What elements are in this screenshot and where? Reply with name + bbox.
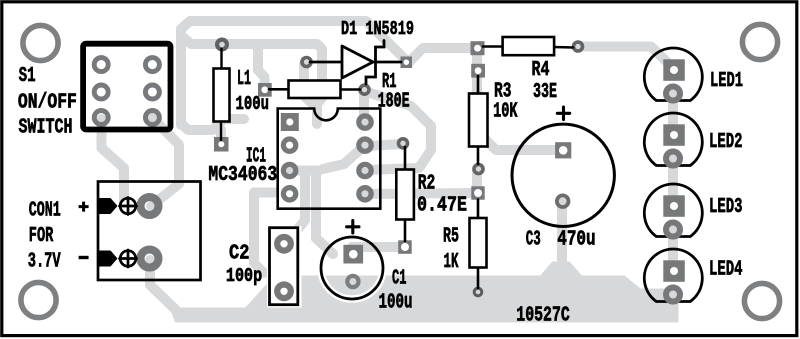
CON1 outline [98, 182, 201, 281]
D1 cathode square pad [401, 57, 413, 69]
wire CON1 + pad to switch right-bottom pad [151, 118, 179, 206]
mounting hole bottom-left [21, 282, 56, 317]
C1 clearance ring [321, 237, 383, 299]
wire IC leg to C1 plus pad (over clearance) [316, 230, 333, 254]
R3 top square pad [471, 64, 485, 78]
svg-text:470u: 470u [557, 229, 596, 252]
wire IC inner leg to C2 top pad [298, 172, 305, 229]
R5 top square pad [471, 186, 484, 199]
svg-text:33E: 33E [533, 81, 557, 104]
LED3 outline [644, 184, 702, 236]
svg-text:C2: C2 [229, 243, 250, 266]
C1 outline [321, 237, 383, 299]
svg-text:LED2: LED2 [709, 131, 743, 154]
D1 anode pad [302, 58, 311, 67]
svg-text:S1: S1 [19, 65, 36, 88]
wire LED2 to LED3 [668, 159, 678, 207]
R2 bottom square pad [398, 240, 412, 254]
wire L1 bottom pad branch [216, 130, 226, 139]
R1 body [269, 88, 289, 91]
IC1 pin1 square pad [281, 113, 299, 131]
R3 body [477, 76, 480, 96]
svg-text:100u: 100u [236, 93, 270, 115]
svg-text:LED4: LED4 [709, 259, 743, 282]
switch S1 pads [94, 58, 159, 125]
svg-text:D1 1N5819: D1 1N5819 [341, 18, 414, 40]
R2 top pad [399, 139, 408, 148]
svg-text:100u: 100u [379, 292, 413, 315]
CON1 + pin screw symbol [120, 198, 136, 214]
R4 left square pad [471, 41, 485, 55]
wire C1 plus pad to R2 bottom pad (over clearance) [360, 242, 400, 252]
LED2 pads [663, 124, 685, 146]
L1 top pad [217, 40, 227, 50]
R4 right pad [574, 42, 583, 51]
wire IC pin7 diagonal [323, 145, 365, 169]
wire IC pin4 to ground pour [254, 193, 274, 274]
C3 round pad [557, 195, 569, 207]
mounting hole bottom-right [744, 283, 779, 318]
C3 square pad [555, 142, 571, 158]
R1 left square pad [258, 83, 272, 97]
R4 body [483, 45, 503, 48]
wire LED1 to LED2 [668, 93, 678, 136]
R1 right pad [360, 85, 369, 94]
wire CON1 + to switch left-bottom pad [102, 119, 125, 205]
svg-text:10K: 10K [493, 101, 518, 124]
label CON1 minus [79, 256, 89, 259]
R3 bottom pad [474, 165, 483, 174]
svg-text:R5: R5 [443, 226, 459, 249]
switch S1 outline [83, 44, 170, 130]
ground pour polygon [172, 263, 677, 321]
wire stub from switch net over L1 pad [181, 119, 244, 130]
LED pads (drawn over outlines) [663, 59, 685, 301]
wire C3 - pad down to pour [557, 202, 567, 262]
D1 diode symbol [310, 61, 342, 64]
svg-text:MC34063: MC34063 [208, 164, 277, 187]
R5 bottom pad [474, 288, 482, 296]
wire IC pin5 to R5 top pad [366, 193, 472, 194]
wire C1 plus pad to R2 bottom pad [352, 242, 400, 252]
wire branch down to R1 left pad [258, 45, 265, 85]
wire R4 right pad to LED1 square pad [578, 47, 671, 67]
svg-text:R2: R2 [418, 173, 436, 196]
C2 pads [277, 237, 291, 251]
wire IC inner leg to C1 plus pad [316, 171, 333, 254]
svg-text:10527C: 10527C [516, 305, 570, 328]
wire R3 top pad down to C3 + pad [477, 69, 562, 150]
wire D1 anode pad down to IC notch [304, 64, 314, 105]
svg-text:C3: C3 [526, 229, 541, 252]
LED1 pads [663, 59, 685, 81]
LED4 pads [663, 260, 685, 282]
C3 + mark [557, 107, 569, 119]
wire IC inner bar to pin3 [291, 166, 319, 176]
IC1 outline with notch [278, 109, 381, 209]
wire LED4 round pad to pour [650, 291, 673, 301]
svg-text:R4: R4 [532, 59, 550, 82]
svg-text:L1: L1 [237, 68, 251, 91]
CON1 pads [141, 197, 159, 215]
CON1 - pin wedge [97, 251, 118, 267]
LED4 outline [644, 249, 702, 301]
L1 body [220, 49, 222, 68]
traces layer [102, 21, 674, 310]
C1 square pad [343, 245, 363, 264]
label CON1 plus [79, 202, 89, 212]
svg-text:LED1: LED1 [710, 70, 743, 93]
svg-text:180E: 180E [378, 91, 410, 114]
C1 + mark [347, 221, 359, 233]
mounting hole top-left [23, 25, 58, 60]
wire bundle to R1 left pad and ground vertical [184, 38, 322, 124]
wire R4 left pad to R3 top pad [472, 48, 482, 69]
svg-text:100p: 100p [226, 265, 262, 287]
pour flare under C3 [541, 263, 581, 277]
LED1 outline [644, 48, 702, 100]
wire R3 bottom pad to R5 top pad [472, 170, 482, 193]
svg-text:CON1: CON1 [29, 200, 61, 223]
wire R2 top pad to IC pin7 [366, 144, 402, 146]
svg-text:0.47E: 0.47E [417, 195, 467, 218]
svg-text:LED3: LED3 [709, 196, 743, 219]
wire D1 cathode pad to R4 left pad [409, 48, 477, 62]
R2 body [404, 147, 407, 170]
mounting hole top-right [742, 24, 777, 59]
CON1 - pin screw symbol [120, 251, 136, 267]
wire R1 right pad loop to IC pin6 [364, 91, 431, 170]
LED2 outline [644, 113, 702, 165]
svg-text:3.7V: 3.7V [28, 250, 61, 273]
CON1 + pin wedge [97, 198, 118, 214]
wire LED3 to LED4 [668, 230, 678, 272]
L1 bottom square pad [214, 137, 229, 152]
C2 outline [270, 228, 298, 305]
wire R1 right pad to IC pin8 [359, 91, 369, 124]
IC1 pads [283, 116, 371, 200]
R5 body [477, 200, 480, 219]
wire switch S1 top-right to D1 anode net (top horizontal) [181, 21, 409, 125]
svg-text:SWITCH: SWITCH [19, 116, 73, 139]
C3 outline [512, 124, 614, 226]
svg-text:1K: 1K [444, 251, 459, 274]
svg-text:C1: C1 [392, 268, 407, 291]
wire CON1 - pad to ground pour [150, 260, 176, 310]
C1 round pad [347, 276, 358, 287]
svg-text:ON/OFF: ON/OFF [18, 91, 77, 114]
svg-text:FOR: FOR [29, 225, 54, 248]
C2 clearance [267, 226, 302, 308]
LED3 pads [663, 195, 685, 217]
